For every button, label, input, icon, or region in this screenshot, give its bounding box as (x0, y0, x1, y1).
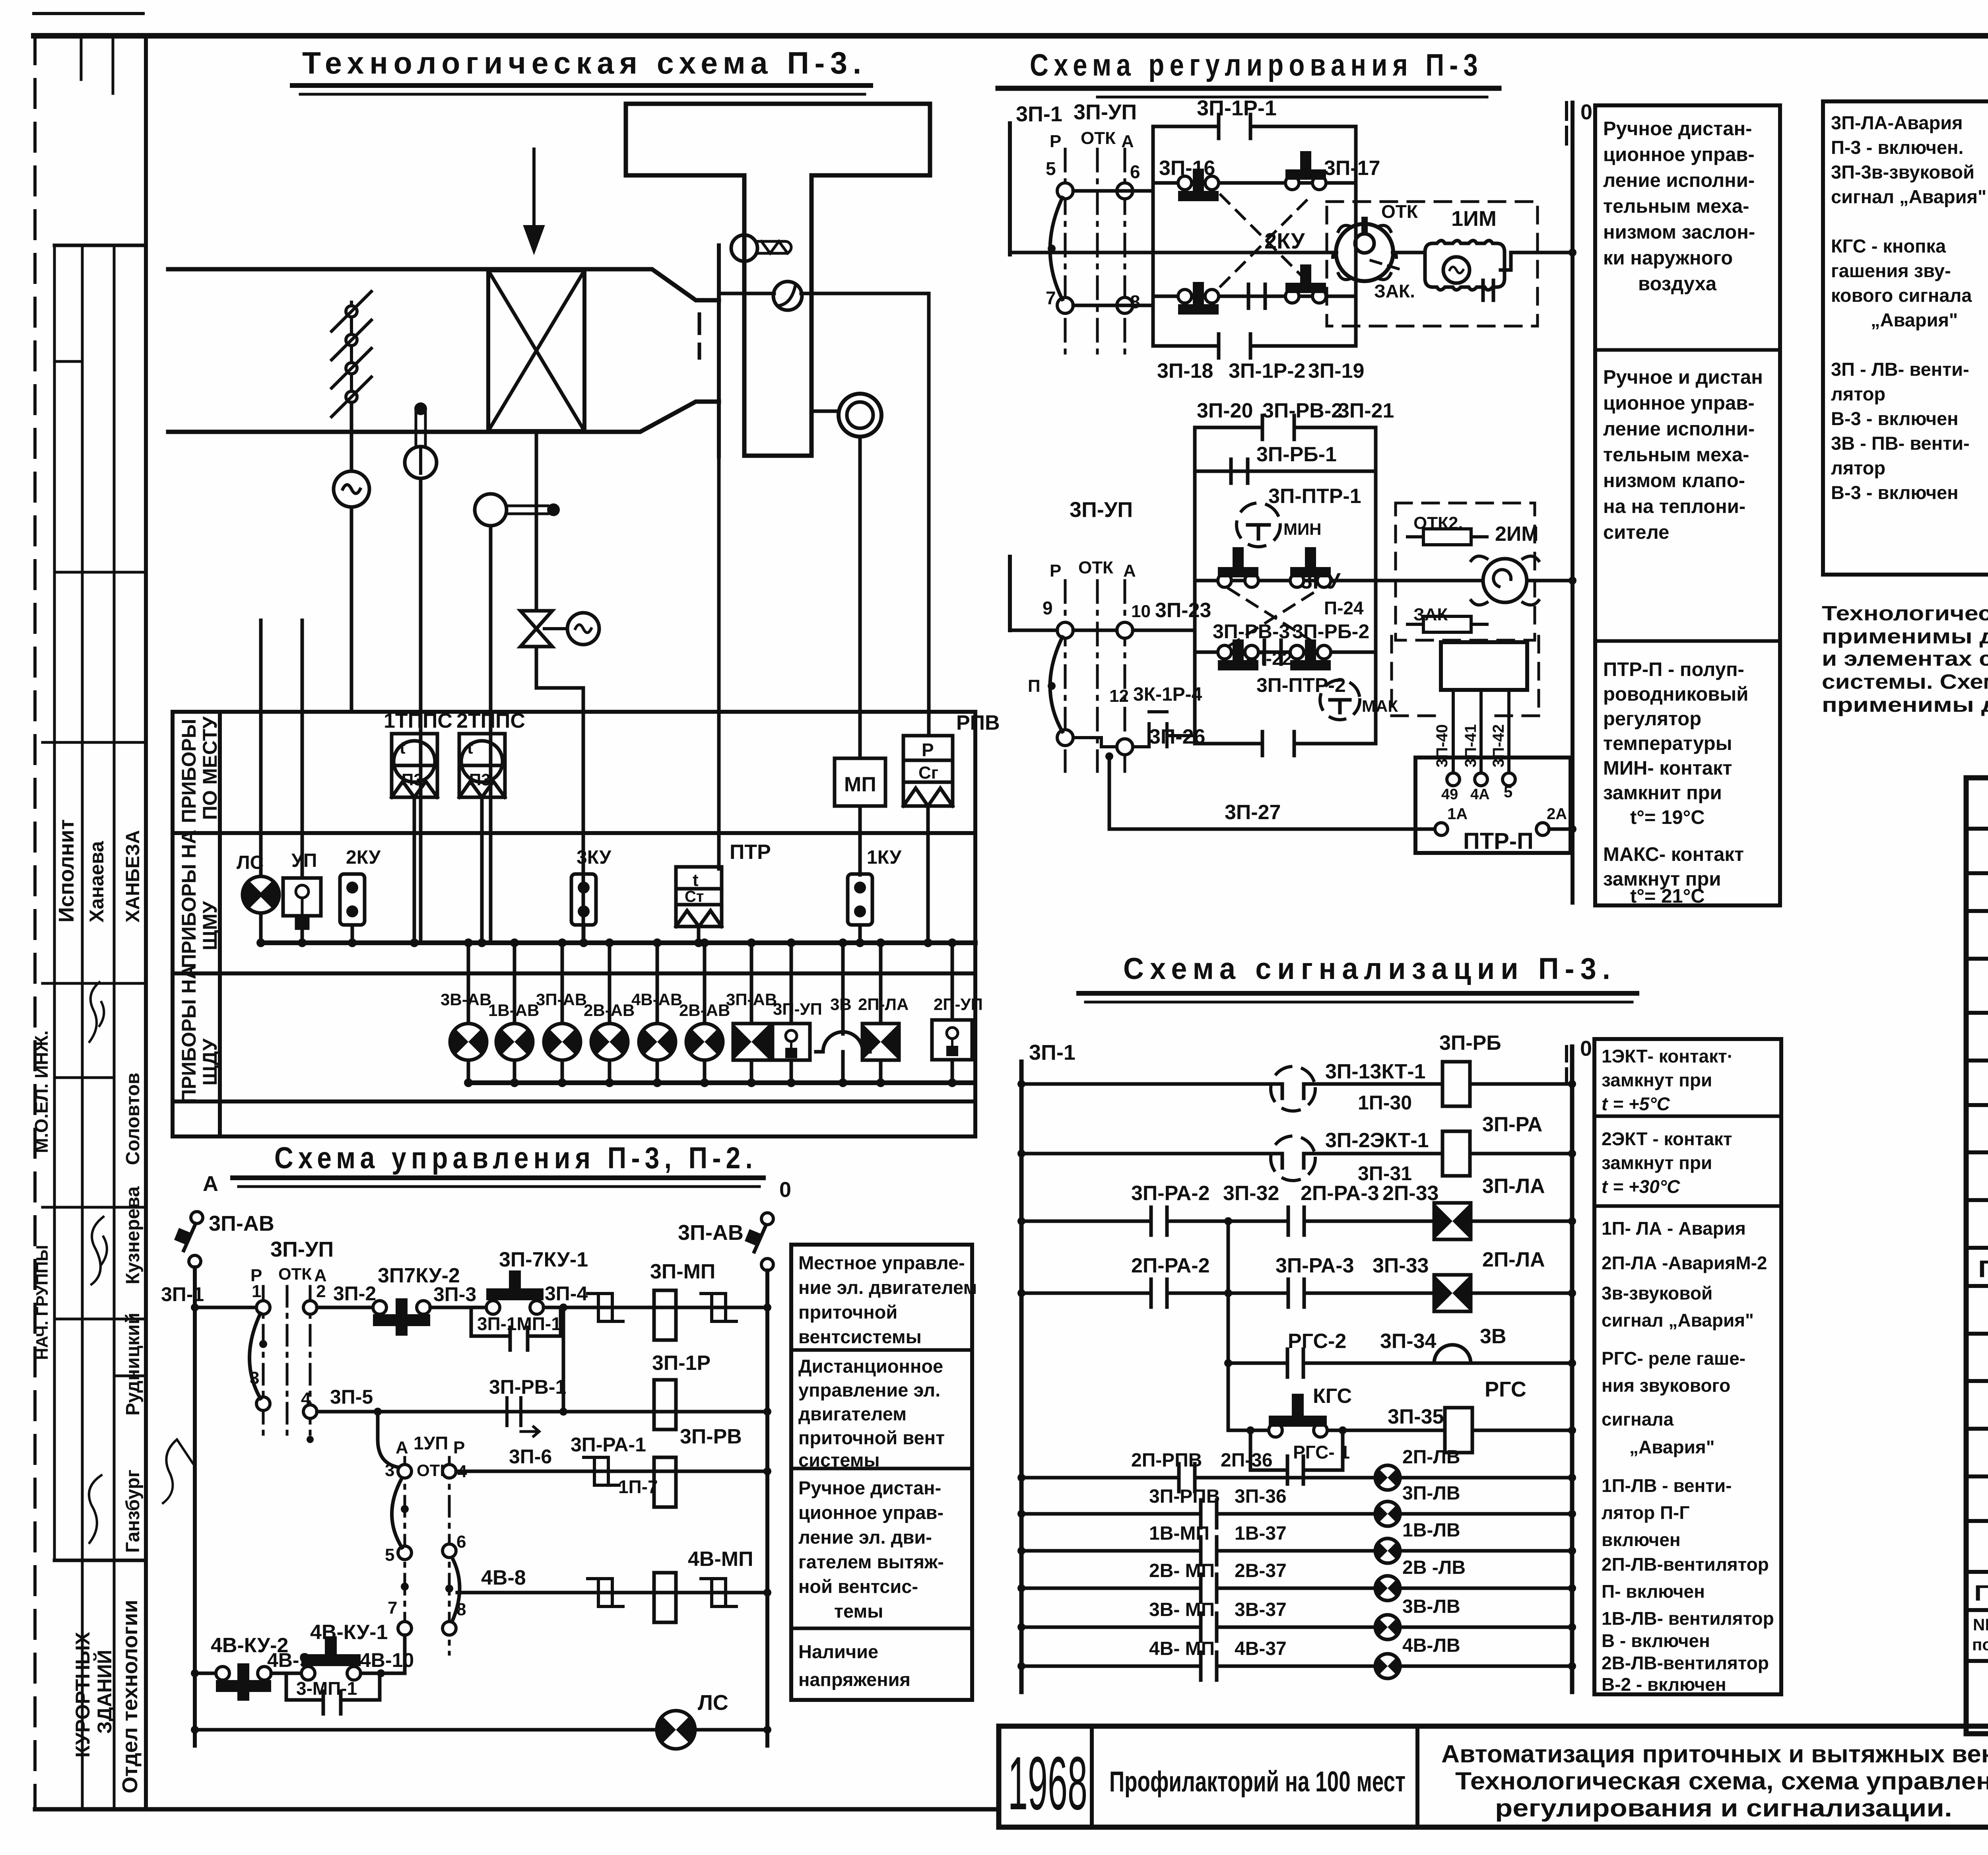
svg-text:3П-ЛА-Авария: 3П-ЛА-Авария (1831, 112, 1963, 133)
svg-text:3П-УП: 3П-УП (1074, 100, 1137, 124)
svg-text:3П-31: 3П-31 (1358, 1162, 1412, 1185)
buttons on rails (1178, 151, 1326, 315)
svg-text:3П-18: 3П-18 (1157, 359, 1213, 383)
svg-text:ление эл. дви-: ление эл. дви- (798, 1527, 932, 1548)
TECH SCHEMA (168, 45, 1000, 1136)
svg-text:Ханаева: Ханаева (85, 841, 108, 923)
svg-text:2П-33: 2П-33 (1382, 1182, 1439, 1205)
damper circle with flag (731, 235, 757, 261)
stamp signatures (89, 982, 104, 1042)
svg-text:3П-ЛА: 3П-ЛА (1482, 1175, 1545, 1198)
svg-text:двигателем: двигателем (798, 1403, 907, 1424)
svg-text:3П-УП: 3П-УП (773, 1000, 822, 1018)
svg-text:ПРИБОРЫ НА: ПРИБОРЫ НА (178, 965, 200, 1103)
svg-text:КГС: КГС (1313, 1385, 1352, 1408)
svg-text:ние эл. двигателем: ние эл. двигателем (798, 1277, 977, 1298)
wire double circle down to MP (858, 437, 862, 758)
svg-text:3П-2ЭКТ-1: 3П-2ЭКТ-1 (1325, 1129, 1429, 1152)
rung 2V-LV (1021, 1587, 1572, 1590)
selector switch columns upper (1064, 149, 1067, 358)
svg-text:3П-ЛВ: 3П-ЛВ (1402, 1483, 1460, 1504)
rung 3 (456, 1470, 767, 1473)
svg-text:Р: Р (1050, 132, 1061, 151)
SPEC TABLE (1966, 778, 1988, 1734)
control valve (520, 611, 552, 647)
svg-text:ПРИБОРЫ НА: ПРИБОРЫ НА (178, 830, 200, 968)
svg-text:МП: МП (844, 773, 876, 796)
right bus (765, 1270, 769, 1746)
svg-text:МИН: МИН (1283, 520, 1322, 538)
buttons on rail 1640 (1218, 639, 1331, 670)
vertical drop from 3P-4 junction (562, 1307, 565, 1412)
lamp 3P-AV (561, 943, 564, 1083)
svg-text:3П-1МП-1: 3П-1МП-1 (477, 1313, 561, 1334)
rung 1V-LV (1021, 1549, 1572, 1553)
svg-text:ление исполни-: ление исполни- (1603, 170, 1755, 191)
instrument labels SCMU row (237, 847, 902, 873)
svg-text:4В- МП: 4В- МП (1149, 1638, 1215, 1659)
button 3P-7KU-1 (NO above) (486, 1301, 500, 1314)
MP box (835, 758, 885, 806)
bottom rung LS (195, 1728, 767, 1732)
switch blade arc (1050, 198, 1062, 299)
lower ladder labels (1028, 399, 1394, 748)
svg-text:„Авария": „Авария" (1629, 1437, 1715, 1457)
svg-text:6: 6 (1130, 161, 1140, 182)
lamp 2V-AV (608, 943, 612, 1083)
svg-text:3П-13КТ-1: 3П-13КТ-1 (1325, 1060, 1425, 1083)
svg-text:1: 1 (252, 1282, 261, 1301)
2IM motor (1483, 559, 1527, 602)
svg-text:3П-6: 3П-6 (509, 1445, 552, 1468)
3P-RB-1 bracket label (1213, 443, 1369, 696)
svg-text:3П-16: 3П-16 (1159, 157, 1215, 180)
svg-text:П-3 - включен.: П-3 - включен. (1831, 137, 1963, 158)
svg-text:Технологическая схема П-3.: Технологическая схема П-3. (302, 45, 867, 80)
svg-text:t = +5°С: t = +5°С (1602, 1094, 1670, 1114)
svg-text:ПТР-П: ПТР-П (1463, 828, 1534, 854)
svg-text:3П-АВ: 3П-АВ (209, 1212, 274, 1235)
bus dots (1017, 1080, 1576, 1434)
MAK dashed circle (1320, 680, 1360, 720)
svg-text:3П-АВ: 3П-АВ (726, 990, 777, 1009)
svg-text:3П-23: 3П-23 (1155, 599, 1211, 622)
svg-text:9: 9 (1043, 598, 1053, 618)
svg-text:П-24: П-24 (1324, 598, 1364, 618)
svg-text:3В-АВ: 3В-АВ (441, 990, 491, 1009)
title (302, 45, 867, 80)
svg-text:2П-ЛВ: 2П-ЛВ (1402, 1447, 1460, 1468)
svg-text:1ИМ: 1ИМ (1451, 207, 1497, 231)
rung 2P-LV (1021, 1476, 1572, 1480)
svg-text:ния звукового: ния звукового (1602, 1375, 1730, 1396)
TITLE BLOCK (999, 1726, 1988, 1827)
1UP switch columns (385, 1433, 467, 1619)
thermometer 1 (414, 402, 427, 415)
svg-text:3П-РА: 3П-РА (1482, 1113, 1542, 1136)
svg-text:ПРИБОРЫ: ПРИБОРЫ (178, 719, 200, 823)
svg-text:2ЭКТ - контакт: 2ЭКТ - контакт (1602, 1129, 1732, 1149)
svg-text:3КУ: 3КУ (577, 847, 612, 868)
contacts inside 2IM box (1408, 529, 1487, 545)
bottom border left part (35, 1807, 999, 1812)
left bus upper (1008, 123, 1012, 254)
contact block 1 (1153, 115, 1356, 358)
left bus (1019, 1062, 1024, 1692)
svg-text:3П-РПВ: 3П-РПВ (1149, 1486, 1220, 1507)
svg-text:вентсистемы: вентсистемы (798, 1326, 922, 1347)
sheet top border (34, 33, 1988, 39)
left sheet dashed border (33, 36, 37, 1809)
svg-text:гашения зву-: гашения зву- (1831, 260, 1951, 281)
rung 2: EKT2 + 3P-RA coil (1021, 1152, 1572, 1156)
svg-text:3П-5: 3П-5 (330, 1386, 373, 1408)
svg-text:и элементах схемы индекса: и элементах схемы индекса 3П на индекс с… (1822, 647, 1988, 670)
stamp rotated labels (31, 819, 144, 1793)
svg-text:МИН- контакт: МИН- контакт (1603, 758, 1732, 779)
contact circles upper (1057, 183, 1073, 199)
2KU button (340, 874, 365, 925)
SIGNAL P-3 SCHEMA (1017, 952, 1781, 1695)
lamp labels (441, 990, 983, 1020)
svg-text:1П- ЛА - Авария: 1П- ЛА - Авария (1602, 1218, 1746, 1239)
NOTE (1822, 520, 1988, 717)
bell 3V (841, 943, 845, 1083)
svg-text:49: 49 (1441, 786, 1458, 803)
slash circle (773, 282, 802, 310)
lamp 2V-AV2 (703, 943, 707, 1083)
svg-text:3-МП-1: 3-МП-1 (296, 1678, 357, 1699)
svg-text:4А: 4А (1470, 786, 1490, 803)
stamp cells dividers (54, 244, 146, 247)
svg-text:4В-АВ: 4В-АВ (631, 990, 682, 1009)
svg-text:ОТК: ОТК (1381, 201, 1418, 222)
svg-text:3К-1Р-4: 3К-1Р-4 (1133, 684, 1202, 705)
svg-text:3П-РА-1: 3П-РА-1 (571, 1433, 646, 1456)
svg-text:3П-1: 3П-1 (1016, 102, 1062, 126)
svg-text:2В-АВ: 2В-АВ (679, 1001, 730, 1020)
svg-text:3П-21: 3П-21 (1338, 399, 1394, 422)
air duct top (168, 269, 719, 300)
svg-text:ОТК: ОТК (1081, 128, 1116, 148)
svg-text:NN: NN (1973, 1615, 1988, 1634)
svg-text:1П-30: 1П-30 (1358, 1092, 1412, 1114)
svg-text:3П-3в-звуковой: 3П-3в-звуковой (1831, 161, 1974, 183)
junction vertical (1227, 1221, 1230, 1430)
svg-text:1ТППС: 1ТППС (384, 709, 452, 732)
svg-text:3П-33: 3П-33 (1373, 1254, 1429, 1277)
svg-text:П- включен: П- включен (1602, 1581, 1705, 1602)
svg-text:1П-7: 1П-7 (618, 1476, 658, 1497)
svg-text:ОТК: ОТК (278, 1265, 312, 1283)
left bus (193, 1267, 197, 1746)
svg-text:применимы для П-2.: применимы для П-2. (1822, 693, 1988, 717)
UP switch box 3P-UP (790, 943, 793, 1083)
svg-text:3П-РБ: 3П-РБ (1439, 1031, 1501, 1055)
svg-text:тельным меха-: тельным меха- (1603, 444, 1749, 466)
SCDU lamps (441, 938, 983, 1087)
contact 3K-1R-4 and 3P-26 wire (1133, 712, 1195, 747)
svg-text:1П-ЛВ - венти-: 1П-ЛВ - венти- (1602, 1475, 1732, 1496)
svg-text:ление исполни-: ление исполни- (1603, 418, 1755, 440)
svg-text:РПВ: РПВ (956, 711, 1000, 734)
svg-text:3П-1Р-2: 3П-1Р-2 (1229, 359, 1305, 383)
svg-text:Ручное и дистан: Ручное и дистан (1603, 367, 1763, 388)
button 3P7KU-2 (NC below) (373, 1301, 386, 1314)
svg-text:3В- МП: 3В- МП (1149, 1599, 1215, 1620)
svg-text:3П-ПТР-2: 3П-ПТР-2 (1256, 674, 1346, 696)
svg-text:воздуха: воздуха (1638, 273, 1717, 295)
svg-text:4В-КУ-1: 4В-КУ-1 (310, 1621, 388, 1644)
svg-text:ки наружного: ки наружного (1603, 247, 1733, 269)
svg-text:2В-37: 2В-37 (1235, 1560, 1287, 1581)
svg-text:3П-19: 3П-19 (1308, 359, 1364, 383)
REGULATION SCHEMA (998, 47, 1780, 907)
svg-text:П3: П3 (469, 770, 491, 789)
svg-text:замкнит при: замкнит при (1603, 782, 1722, 804)
svg-text:Ручное дистан-: Ручное дистан- (1603, 118, 1752, 140)
flex connector (698, 314, 701, 358)
svg-text:РГС: РГС (1485, 1377, 1526, 1401)
svg-text:0: 0 (779, 1178, 791, 1202)
wire fan to double circle (812, 410, 839, 413)
LS lamp (243, 876, 279, 913)
svg-text:Профилакторий на 100 мест: Профилакторий на 100 мест (1109, 1766, 1406, 1798)
svg-text:3В: 3В (1480, 1325, 1506, 1348)
SIGNAL P-1 SCHEMA (1823, 43, 1988, 575)
svg-text:включен: включен (1602, 1529, 1681, 1550)
svg-text:4В-37: 4В-37 (1235, 1638, 1287, 1659)
title (274, 1141, 757, 1175)
svg-text:регулирования и сигнализаци: регулирования и сигнализации. (1495, 1795, 1952, 1822)
svg-text:ОТК: ОТК (1078, 558, 1113, 577)
bus dots (464, 938, 957, 1087)
svg-text:3П-РА-2: 3П-РА-2 (1131, 1182, 1210, 1205)
svg-text:ХАНБЕЗА: ХАНБЕЗА (122, 830, 144, 923)
svg-text:2П-РА-2: 2П-РА-2 (1131, 1254, 1210, 1277)
svg-text:7: 7 (1046, 287, 1056, 308)
svg-text:2П-ЛВ-вентилятор: 2П-ЛВ-вентилятор (1602, 1554, 1769, 1575)
svg-text:П: П (1028, 676, 1041, 696)
svg-text:Технологическая схема, схема: Технологическая схема, схема управления, (1455, 1768, 1988, 1795)
svg-text:замкнут при: замкнут при (1602, 1152, 1712, 1173)
sensor dashed box (1392, 636, 1539, 716)
svg-text:Р: Р (922, 740, 934, 760)
double circle (motor) (839, 394, 881, 437)
dashed box 2IM (1396, 503, 1535, 640)
svg-text:t: t (693, 870, 699, 890)
rung 1 (195, 1306, 256, 1309)
filter symbol (332, 291, 371, 417)
crossed dashed block2 (1229, 589, 1320, 646)
SCDU bus (468, 1080, 972, 1085)
heater stem down to valve (535, 431, 538, 611)
rung 6 parallel RGS-1 (1250, 1430, 1343, 1470)
svg-text:1УП: 1УП (414, 1433, 448, 1453)
rung 5: bell 3V (1228, 1362, 1572, 1365)
svg-text:2ИМ: 2ИМ (1495, 523, 1539, 546)
svg-text:3П-36: 3П-36 (1235, 1486, 1287, 1507)
T-duct (626, 104, 930, 456)
notes box P-3 (1594, 1039, 1781, 1694)
svg-text:3П-1Р-1: 3П-1Р-1 (1197, 96, 1277, 120)
title (1123, 952, 1616, 986)
svg-text:КУРОРТНЫХ: КУРОРТНЫХ (72, 1632, 94, 1758)
square lamp 3P-AV (750, 943, 753, 1083)
svg-text:3П-ПТР-1: 3П-ПТР-1 (1268, 485, 1361, 508)
wire fan to right (719, 292, 929, 295)
wire to pressure sensor down (927, 293, 931, 736)
MIN dashed circle (1237, 503, 1280, 547)
heater box (488, 270, 584, 431)
svg-text:температуры: температуры (1603, 733, 1732, 754)
svg-text:3П-34: 3П-34 (1380, 1330, 1437, 1353)
right bus (1571, 103, 1574, 903)
svg-text:приточной: приточной (798, 1301, 897, 1323)
CONTROL SCHEMA (161, 1141, 977, 1749)
rail to block top (1073, 189, 1153, 193)
wire fan down to PTR (717, 456, 721, 869)
crossed dashed (1221, 195, 1312, 286)
rung 1: EKT1 + 3P-RB coil (1021, 1082, 1572, 1086)
svg-text:3П-АВ: 3П-АВ (536, 990, 587, 1009)
svg-text:t: t (467, 738, 473, 758)
rung 3P-LV (1021, 1512, 1572, 1516)
svg-text:УП: УП (291, 850, 317, 871)
svg-text:ЗАК.: ЗАК. (1374, 281, 1415, 301)
svg-text:КГС - кнопка: КГС - кнопка (1831, 235, 1946, 256)
2KU switch (1336, 224, 1393, 281)
svg-text:приточной вент: приточной вент (798, 1427, 945, 1448)
svg-text:3П-РБ-2: 3П-РБ-2 (1292, 620, 1369, 643)
svg-text:гателем вытяж-: гателем вытяж- (798, 1551, 944, 1572)
svg-text:1В-АВ: 1В-АВ (488, 1001, 539, 1020)
instrument band table (173, 712, 975, 1136)
svg-text:Исполнит: Исполнит (54, 819, 78, 923)
svg-text:Приборы на щите местного у: Приборы на щите местного управления (1978, 1256, 1988, 1282)
PTR device (676, 867, 722, 927)
svg-text:ной вентсис-: ной вентсис- (798, 1576, 918, 1597)
svg-text:5: 5 (385, 1545, 394, 1565)
svg-text:Ст: Ст (685, 888, 704, 905)
svg-text:2В- МП: 2В- МП (1149, 1560, 1215, 1581)
block labels (1157, 96, 1380, 383)
thermometer 2 horizontal (475, 494, 507, 526)
svg-text:ционное управ-: ционное управ- (1603, 392, 1755, 414)
stamp column verticals (53, 245, 56, 1560)
svg-text:4В-ЛВ: 4В-ЛВ (1402, 1635, 1460, 1656)
svg-text:сигнал „Авария": сигнал „Авария" (1602, 1310, 1754, 1331)
svg-text:Схема сигнализации П-3.: Схема сигнализации П-3. (1123, 952, 1616, 986)
svg-text:2П-РА-3: 2П-РА-3 (1301, 1182, 1379, 1205)
svg-text:3П-32: 3П-32 (1223, 1182, 1279, 1205)
svg-text:2В -ЛВ: 2В -ЛВ (1402, 1557, 1466, 1578)
svg-text:3П-40: 3П-40 (1433, 724, 1451, 767)
sensor rect (1441, 642, 1527, 690)
lamp 3V-AV (467, 943, 470, 1083)
labels (1016, 100, 1140, 312)
contact block 2 (1195, 416, 1376, 756)
svg-text:7: 7 (388, 1598, 397, 1618)
svg-text:ЗАК: ЗАК (1413, 605, 1448, 624)
svg-text:10: 10 (1131, 602, 1151, 621)
svg-text:1В-37: 1В-37 (1235, 1523, 1287, 1544)
svg-text:поз.: поз. (1972, 1635, 1988, 1654)
right bus (1570, 1047, 1574, 1692)
rung 4V-LV (1021, 1665, 1572, 1668)
svg-text:3П-41: 3П-41 (1462, 724, 1479, 767)
lamp 4V-AV (656, 943, 659, 1083)
svg-text:„Авария": „Авария" (1871, 309, 1958, 330)
dashed box IM1 (1327, 202, 1538, 326)
svg-text:ПО МЕСТУ: ПО МЕСТУ (199, 716, 221, 820)
svg-text:Местное управле-: Местное управле- (798, 1252, 965, 1273)
svg-text:0: 0 (1580, 100, 1592, 124)
top left edge mark (34, 12, 143, 15)
rung 4: 2P-LA (1021, 1292, 1572, 1295)
main rail upper (1010, 251, 1336, 254)
svg-text:t°= 19°С: t°= 19°С (1630, 807, 1705, 828)
svg-text:3в-звуковой: 3в-звуковой (1602, 1283, 1712, 1303)
svg-text:ционное управ-: ционное управ- (798, 1502, 944, 1523)
svg-text:низмом заслон-: низмом заслон- (1603, 221, 1755, 243)
fan left wall (717, 245, 721, 456)
svg-text:3П-РВ: 3П-РВ (680, 1425, 742, 1448)
svg-text:ПТР: ПТР (730, 841, 771, 864)
svg-text:РГС-2: РГС-2 (1288, 1330, 1346, 1353)
svg-text:ЩДУ: ЩДУ (199, 1038, 221, 1086)
1IM actuator (1393, 251, 1425, 254)
RPV device (903, 736, 953, 806)
svg-text:ционное управ-: ционное управ- (1603, 144, 1755, 165)
svg-text:Ганзбург: Ганзбург (122, 1470, 144, 1553)
svg-text:3П-17: 3П-17 (1324, 157, 1380, 180)
UP switch box 2P-UP (951, 943, 954, 1083)
svg-text:Ручное дистан-: Ручное дистан- (798, 1477, 941, 1498)
lower rails (1010, 629, 1195, 632)
bracket 3P-1MP-1 (471, 1310, 561, 1336)
PTR-P box (1415, 758, 1571, 853)
svg-text:ЗДАНИЙ: ЗДАНИЙ (93, 1650, 116, 1734)
svg-text:ПТР-П - полуп-: ПТР-П - полуп- (1603, 659, 1744, 680)
svg-text:3П-35: 3П-35 (1388, 1405, 1444, 1428)
svg-text:тельным меха-: тельным меха- (1603, 196, 1749, 217)
svg-text:ЛС: ЛС (698, 1691, 728, 1715)
svg-text:1А: 1А (1447, 805, 1468, 823)
rung 3: 3P-LA (1021, 1220, 1572, 1223)
stamp column top tick marks (80, 36, 83, 80)
svg-text:системы: системы (798, 1449, 880, 1470)
svg-text:лятор: лятор (1831, 457, 1885, 478)
svg-text:6: 6 (456, 1532, 466, 1552)
inflow arrow (525, 149, 543, 251)
svg-text:2П-РПВ: 2П-РПВ (1131, 1450, 1202, 1471)
svg-text:5: 5 (1046, 158, 1056, 179)
1KU button (848, 874, 872, 925)
svg-text:Р: Р (453, 1438, 465, 1457)
svg-text:темы: темы (834, 1601, 883, 1622)
lamp 1V-AV (513, 943, 516, 1083)
svg-text:1В-ЛВ: 1В-ЛВ (1402, 1520, 1460, 1541)
air duct bottom (168, 402, 719, 432)
svg-text:замкнут при: замкнут при (1602, 1070, 1712, 1090)
svg-text:3П-3: 3П-3 (433, 1283, 476, 1305)
rung 5 buttons chain (195, 1672, 216, 1675)
svg-text:5: 5 (1504, 783, 1512, 801)
svg-text:Отдел технологии: Отдел технологии (118, 1600, 142, 1793)
svg-text:А: А (203, 1172, 218, 1196)
1TPPS 2TPPS thermometer devices (392, 734, 505, 797)
